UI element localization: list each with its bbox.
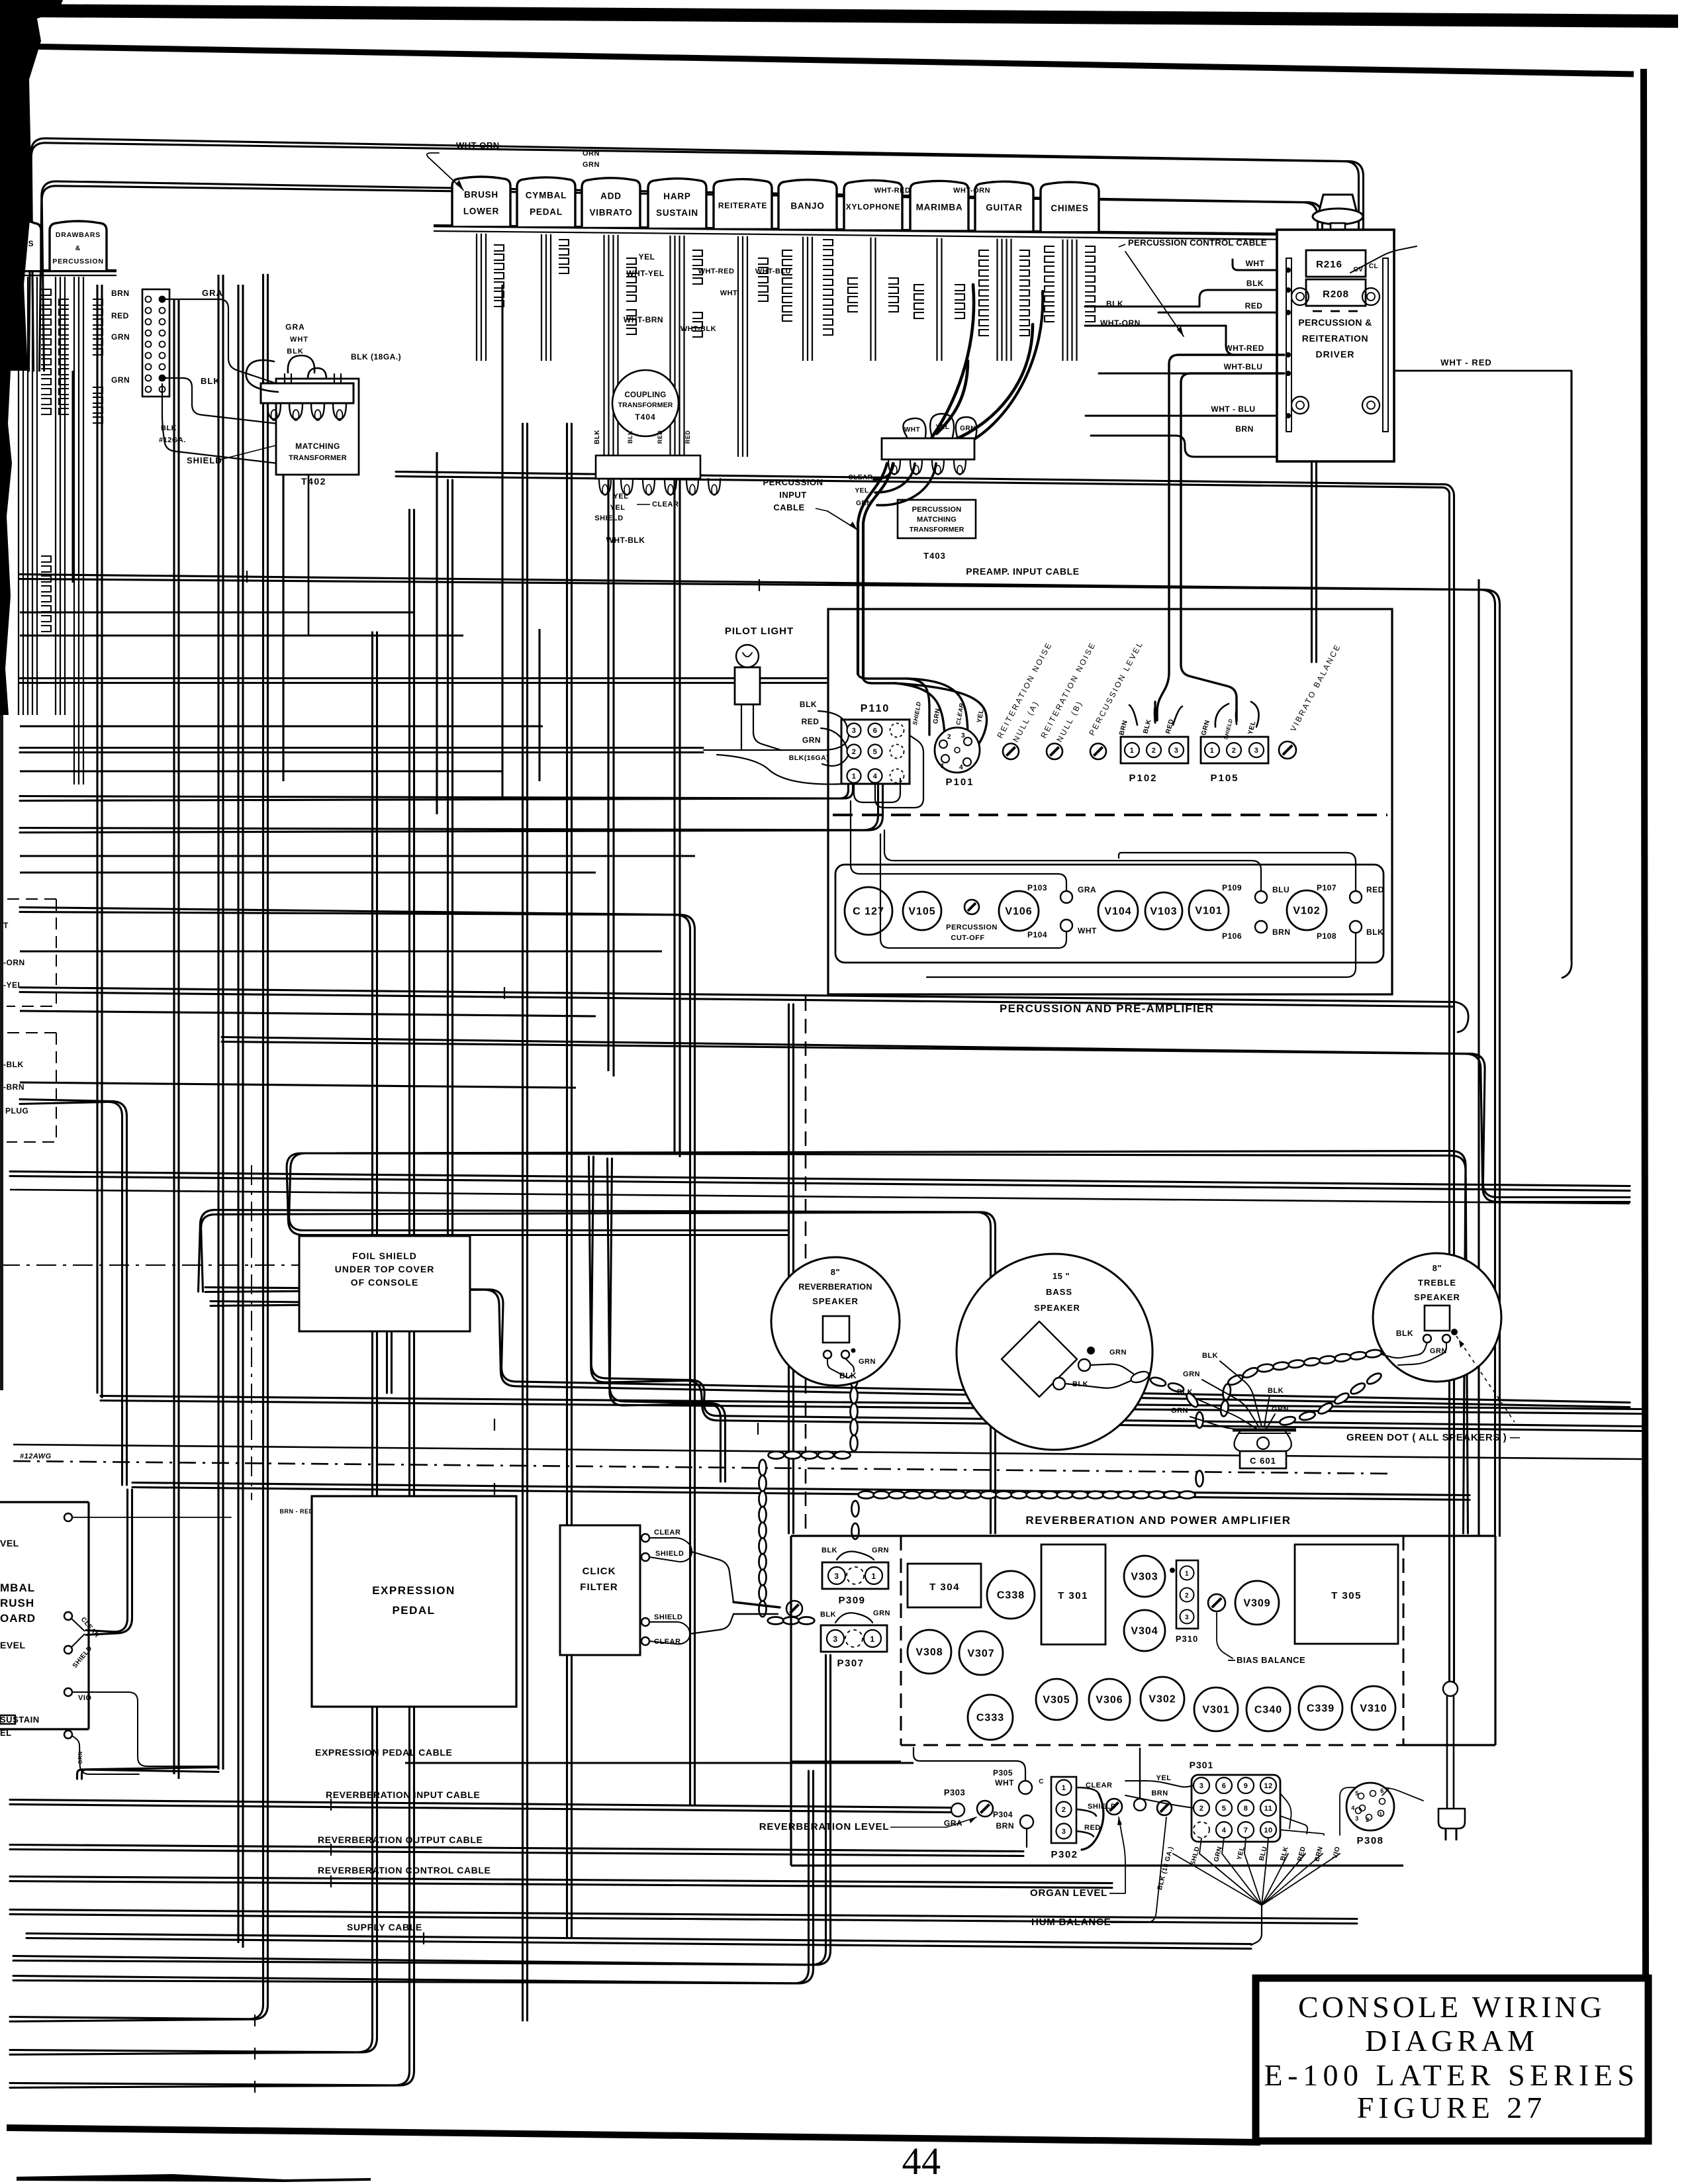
svg-text:SHIELD: SHIELD	[655, 1550, 684, 1558]
svg-text:5: 5	[1222, 1805, 1227, 1813]
svg-text:FIGURE 27: FIGURE 27	[1357, 2091, 1547, 2124]
svg-text:P101: P101	[945, 777, 974, 788]
svg-text:15 ": 15 "	[1053, 1271, 1070, 1281]
svg-text:SUSTAIN: SUSTAIN	[656, 208, 698, 218]
svg-text:GRN: GRN	[872, 1546, 889, 1554]
svg-text:OARD: OARD	[0, 1612, 36, 1625]
svg-text:PLUG: PLUG	[5, 1106, 28, 1116]
svg-text:PERCUSSION: PERCUSSION	[763, 477, 823, 487]
svg-text:MBAL: MBAL	[0, 1582, 35, 1594]
svg-text:WHT-BLK: WHT-BLK	[606, 536, 645, 545]
svg-text:9: 9	[1244, 1782, 1248, 1790]
svg-text:3: 3	[1355, 1815, 1359, 1822]
svg-text:T402: T402	[301, 476, 326, 487]
svg-text:SUSTAIN: SUSTAIN	[0, 1715, 40, 1725]
svg-text:BIAS BALANCE: BIAS BALANCE	[1237, 1655, 1305, 1665]
svg-text:WHT-BLK: WHT-BLK	[680, 325, 716, 333]
svg-text:RED: RED	[1084, 1824, 1101, 1832]
svg-text:T 301: T 301	[1058, 1590, 1088, 1601]
svg-text:GRN: GRN	[111, 332, 130, 342]
svg-text:RED: RED	[1366, 885, 1384, 894]
svg-text:CLEAR: CLEAR	[849, 474, 873, 481]
svg-text:PREAMP. INPUT CABLE: PREAMP. INPUT CABLE	[966, 566, 1079, 577]
svg-text:V103: V103	[1150, 906, 1177, 918]
svg-text:P302: P302	[1051, 1849, 1078, 1860]
svg-text:GRA: GRA	[202, 288, 223, 298]
svg-text:DIAGRAM: DIAGRAM	[1365, 2024, 1538, 2058]
svg-text:6: 6	[873, 727, 878, 735]
svg-text:12: 12	[1264, 1782, 1272, 1790]
svg-text:HARP: HARP	[663, 191, 690, 201]
svg-text:BLU: BLU	[1272, 885, 1289, 894]
svg-text:2: 2	[1062, 1806, 1066, 1814]
svg-text:VIO: VIO	[78, 1694, 91, 1702]
svg-text:#12AWG: #12AWG	[20, 1452, 52, 1460]
svg-text:-BLK: -BLK	[3, 1060, 24, 1069]
svg-text:44: 44	[902, 2140, 941, 2183]
svg-text:10: 10	[1264, 1827, 1272, 1834]
svg-text:GRN: GRN	[859, 1358, 876, 1366]
svg-text:C 601: C 601	[1250, 1456, 1276, 1466]
svg-text:P109: P109	[1222, 883, 1242, 892]
svg-text:VIBRATO: VIBRATO	[589, 207, 632, 217]
svg-text:GRN: GRN	[111, 375, 130, 385]
svg-text:P310: P310	[1176, 1634, 1198, 1644]
svg-text:LOWER: LOWER	[463, 207, 499, 216]
svg-text:BRN: BRN	[111, 289, 130, 298]
svg-text:CLEAR: CLEAR	[654, 1529, 680, 1537]
svg-text:3: 3	[1062, 1828, 1066, 1836]
svg-text:REITERATE: REITERATE	[718, 201, 767, 211]
svg-text:GRN: GRN	[873, 1609, 890, 1617]
svg-text:-BRN: -BRN	[3, 1082, 24, 1092]
svg-text:BLK: BLK	[1177, 1388, 1193, 1396]
svg-text:WHT-RED: WHT-RED	[874, 187, 911, 195]
svg-text:5: 5	[1355, 1790, 1359, 1797]
svg-text:WHT-RED: WHT-RED	[1225, 344, 1264, 353]
svg-text:BRN - RED: BRN - RED	[280, 1508, 314, 1515]
svg-text:1: 1	[941, 763, 945, 770]
svg-text:GRN: GRN	[1272, 1405, 1289, 1413]
svg-text:BLK: BLK	[800, 700, 817, 709]
svg-text:V302: V302	[1149, 1694, 1176, 1705]
svg-text:WHT-YEL: WHT-YEL	[626, 269, 665, 278]
svg-text:GUITAR: GUITAR	[986, 203, 1023, 213]
svg-text:BRN: BRN	[996, 1821, 1015, 1830]
svg-text:P107: P107	[1317, 883, 1336, 892]
svg-text:-ORN: -ORN	[3, 958, 25, 967]
svg-text:BLK: BLK	[820, 1611, 836, 1619]
svg-text:4: 4	[959, 764, 963, 771]
svg-text:1: 1	[1210, 747, 1215, 755]
svg-text:TRANSFORMER: TRANSFORMER	[618, 401, 673, 409]
svg-text:RED: RED	[111, 311, 129, 320]
svg-text:DRIVER: DRIVER	[1316, 349, 1355, 359]
svg-text:11: 11	[1264, 1805, 1273, 1813]
svg-text:BLK: BLK	[627, 430, 633, 444]
svg-text:COUPLING: COUPLING	[624, 391, 666, 399]
svg-text:1: 1	[1379, 1811, 1383, 1818]
svg-text:V301: V301	[1202, 1705, 1229, 1716]
svg-text:WHT-ORN: WHT-ORN	[953, 187, 990, 195]
svg-text:RED: RED	[657, 430, 663, 444]
svg-text:BLK (18GA.): BLK (18GA.)	[351, 352, 401, 361]
svg-text:P102: P102	[1129, 773, 1157, 784]
svg-text:TRANSFORMER: TRANSFORMER	[910, 526, 964, 534]
svg-text:PERCUSSION: PERCUSSION	[946, 924, 998, 931]
svg-text:EVEL: EVEL	[0, 1640, 26, 1650]
svg-text:ORN: ORN	[583, 150, 600, 158]
svg-text:P308: P308	[1356, 1835, 1383, 1846]
svg-text:2: 2	[1232, 747, 1237, 755]
svg-text:BLK: BLK	[1366, 927, 1383, 937]
svg-text:WHT: WHT	[720, 289, 738, 297]
svg-text:ORN: ORN	[77, 1751, 83, 1764]
svg-text:SHIELD: SHIELD	[187, 455, 222, 465]
svg-text:BLK: BLK	[161, 424, 177, 432]
svg-text:2: 2	[1185, 1592, 1189, 1599]
svg-text:CLEAR: CLEAR	[652, 500, 679, 508]
svg-text:BRN: BRN	[1151, 1789, 1168, 1797]
svg-text:BRN: BRN	[1235, 424, 1254, 434]
svg-text:3: 3	[1185, 1614, 1189, 1621]
svg-text:1: 1	[852, 773, 857, 781]
svg-text:WHT-ORN: WHT-ORN	[456, 140, 500, 150]
svg-text:8: 8	[1244, 1805, 1248, 1813]
svg-text:BLK: BLK	[1268, 1387, 1284, 1395]
svg-text:WHT: WHT	[995, 1778, 1014, 1787]
svg-text:GRN: GRN	[583, 161, 600, 169]
svg-text:PERCUSSION AND PRE-AMPLIFIER: PERCUSSION AND PRE-AMPLIFIER	[1000, 1002, 1214, 1015]
svg-text:-YEL: -YEL	[3, 980, 23, 990]
svg-text:BRN: BRN	[1272, 927, 1291, 937]
svg-text:GRA: GRA	[1078, 885, 1096, 894]
svg-text:REITERATION: REITERATION	[1302, 333, 1368, 344]
svg-text:CL: CL	[1369, 263, 1378, 270]
svg-text:C333: C333	[976, 1713, 1004, 1724]
svg-text:MARIMBA: MARIMBA	[916, 202, 963, 212]
svg-text:GRN: GRN	[802, 736, 821, 745]
svg-text:C338: C338	[997, 1590, 1025, 1601]
svg-text:OF CONSOLE: OF CONSOLE	[351, 1277, 419, 1288]
svg-text:P108: P108	[1317, 931, 1336, 941]
svg-text:V304: V304	[1131, 1626, 1158, 1637]
svg-text:CABLE: CABLE	[773, 502, 804, 512]
svg-text:RED: RED	[802, 717, 820, 726]
svg-text:V307: V307	[967, 1648, 994, 1660]
svg-text:1: 1	[871, 1572, 876, 1581]
svg-text:V101: V101	[1195, 906, 1222, 917]
svg-text:3: 3	[833, 1635, 837, 1644]
svg-text:REVERBERATION AND POWER AMP: REVERBERATION AND POWER AMPLIFIER	[1025, 1514, 1291, 1527]
svg-text:2: 2	[852, 748, 857, 756]
svg-text:YEL: YEL	[639, 252, 655, 261]
svg-text:XYLOPHONE: XYLOPHONE	[846, 202, 901, 211]
svg-text:3: 3	[1199, 1782, 1204, 1790]
svg-text:&: &	[75, 244, 81, 252]
svg-text:WHT: WHT	[904, 426, 920, 434]
svg-text:P105: P105	[1210, 773, 1239, 784]
svg-text:WHT-BLU: WHT-BLU	[1224, 362, 1263, 371]
svg-text:7: 7	[1244, 1827, 1248, 1834]
svg-text:HUM BALANCE: HUM BALANCE	[1031, 1917, 1111, 1928]
svg-text:PEDAL: PEDAL	[392, 1604, 435, 1617]
svg-text:TRANSFORMER: TRANSFORMER	[289, 454, 347, 462]
svg-text:4: 4	[1222, 1827, 1227, 1834]
svg-text:CUT-OFF: CUT-OFF	[951, 934, 984, 942]
svg-text:R216: R216	[1316, 259, 1342, 270]
svg-text:2: 2	[1199, 1805, 1204, 1813]
svg-text:2: 2	[1152, 747, 1156, 755]
svg-text:P110: P110	[861, 703, 890, 714]
svg-text:8": 8"	[831, 1267, 840, 1277]
svg-text:ORGAN LEVEL: ORGAN LEVEL	[1030, 1887, 1107, 1899]
svg-text:3: 3	[1254, 747, 1259, 755]
svg-text:5: 5	[873, 748, 878, 756]
svg-text:6: 6	[1222, 1782, 1227, 1790]
svg-text:GRN: GRN	[1430, 1347, 1447, 1355]
svg-text:WHT: WHT	[1246, 259, 1265, 268]
svg-text:PERCUSSION &: PERCUSSION &	[1298, 317, 1372, 328]
svg-text:ADD: ADD	[600, 191, 622, 201]
svg-text:BLK: BLK	[201, 376, 220, 386]
svg-text:2: 2	[1366, 1817, 1370, 1823]
svg-text:PILOT LIGHT: PILOT LIGHT	[725, 626, 794, 637]
svg-text:CYMBAL: CYMBAL	[526, 190, 567, 200]
svg-text:REVERBERATION: REVERBERATION	[798, 1282, 872, 1292]
svg-text:EL: EL	[0, 1728, 12, 1738]
svg-text:E-100 LATER SERIES: E-100 LATER SERIES	[1264, 2058, 1640, 2092]
svg-text:BLK(16GA): BLK(16GA)	[789, 754, 829, 762]
svg-text:BLK: BLK	[594, 430, 601, 444]
svg-text:P305: P305	[993, 1768, 1013, 1778]
svg-text:PERCUSSION: PERCUSSION	[52, 258, 103, 265]
svg-text:BRUSH: BRUSH	[464, 190, 498, 200]
svg-text:3: 3	[834, 1572, 839, 1581]
svg-text:V303: V303	[1131, 1572, 1158, 1583]
svg-text:SPEAKER: SPEAKER	[812, 1296, 859, 1306]
svg-text:GRA: GRA	[285, 322, 305, 332]
svg-text:YEL: YEL	[936, 424, 950, 431]
svg-text:GRN: GRN	[960, 425, 976, 432]
svg-text:GREEN DOT ( ALL SPEAKERS ) —: GREEN DOT ( ALL SPEAKERS ) —	[1346, 1432, 1521, 1443]
svg-text:P106: P106	[1222, 931, 1242, 941]
svg-text:WHT - RED: WHT - RED	[1440, 357, 1492, 367]
svg-text:GRN: GRN	[1183, 1370, 1200, 1378]
svg-text:R208: R208	[1323, 289, 1349, 300]
svg-text:SUPPLY CABLE: SUPPLY CABLE	[347, 1922, 422, 1932]
svg-text:RUSH: RUSH	[0, 1597, 34, 1609]
svg-text:REVERBERATION LEVEL: REVERBERATION LEVEL	[759, 1821, 890, 1832]
svg-text:WHT: WHT	[290, 336, 308, 344]
svg-text:DRAWBARS: DRAWBARS	[56, 231, 101, 239]
svg-text:GRN: GRN	[1171, 1407, 1188, 1415]
svg-text:P304: P304	[993, 1810, 1013, 1819]
svg-text:BLK: BLK	[821, 1546, 837, 1554]
svg-text:MATCHING: MATCHING	[917, 516, 957, 524]
svg-text:WHT - BLU: WHT - BLU	[1211, 404, 1255, 414]
svg-text:CONSOLE WIRING: CONSOLE WIRING	[1298, 1990, 1605, 2024]
svg-text:V106: V106	[1005, 906, 1032, 918]
svg-text:SPEAKER: SPEAKER	[1414, 1292, 1460, 1302]
svg-text:YEL: YEL	[610, 504, 626, 512]
svg-text:1: 1	[1130, 747, 1135, 755]
svg-text:CHIMES: CHIMES	[1051, 203, 1088, 213]
svg-text:P309: P309	[838, 1595, 865, 1606]
svg-text:TREBLE: TREBLE	[1418, 1278, 1456, 1288]
svg-text:INPUT: INPUT	[779, 490, 807, 500]
svg-text:MATCHING: MATCHING	[295, 442, 340, 451]
svg-text:1: 1	[870, 1635, 874, 1644]
svg-text:FILTER: FILTER	[580, 1582, 618, 1593]
svg-text:BLK: BLK	[1396, 1329, 1413, 1338]
svg-text:BLK: BLK	[1246, 279, 1264, 288]
svg-text:2: 2	[947, 734, 951, 741]
svg-text:T404: T404	[635, 412, 655, 422]
svg-text:8": 8"	[1432, 1263, 1442, 1273]
svg-text:6: 6	[1380, 1787, 1384, 1794]
svg-text:UNDER TOP COVER: UNDER TOP COVER	[335, 1264, 435, 1274]
svg-text:1: 1	[1062, 1784, 1066, 1792]
svg-text:PERCUSSION: PERCUSSION	[912, 506, 962, 514]
svg-text:V105: V105	[908, 906, 935, 918]
svg-text:T 304: T 304	[929, 1582, 960, 1593]
svg-text:PEDAL: PEDAL	[530, 207, 563, 216]
svg-text:SHIELD: SHIELD	[594, 514, 623, 522]
svg-text:CLICK: CLICK	[583, 1566, 616, 1577]
svg-text:REVERBERATION OUTPUT CABLE: REVERBERATION OUTPUT CABLE	[318, 1834, 483, 1845]
svg-text:PERCUSSION CONTROL CABLE: PERCUSSION CONTROL CABLE	[1128, 238, 1267, 248]
svg-text:C: C	[1039, 1778, 1044, 1785]
svg-text:EXPRESSION: EXPRESSION	[372, 1584, 455, 1597]
svg-text:P303: P303	[944, 1787, 965, 1797]
svg-text:BLK: BLK	[839, 1371, 857, 1380]
svg-text:V306: V306	[1096, 1695, 1123, 1706]
svg-text:3: 3	[961, 732, 965, 739]
svg-text:BANJO: BANJO	[790, 201, 824, 211]
svg-text:REVERBERATION INPUT CABLE: REVERBERATION INPUT CABLE	[326, 1789, 480, 1800]
svg-text:T: T	[3, 921, 9, 930]
svg-text:3: 3	[852, 727, 857, 735]
svg-text:YEL: YEL	[614, 493, 629, 500]
svg-text:SPEAKER: SPEAKER	[1034, 1303, 1080, 1313]
svg-text:V102: V102	[1293, 906, 1320, 917]
svg-text:RED: RED	[684, 430, 691, 444]
svg-text:RED: RED	[1245, 301, 1263, 310]
svg-text:P104: P104	[1027, 930, 1047, 939]
svg-text:V310: V310	[1360, 1703, 1387, 1715]
svg-text:WHT-BLU: WHT-BLU	[755, 267, 791, 275]
svg-text:C339: C339	[1307, 1703, 1335, 1715]
svg-text:WHT-BRN: WHT-BRN	[624, 315, 663, 324]
svg-text:3: 3	[1174, 747, 1179, 755]
svg-text:T 305: T 305	[1331, 1590, 1362, 1601]
svg-text:4: 4	[873, 773, 878, 781]
svg-text:YEL: YEL	[1156, 1774, 1172, 1782]
svg-text:EXPRESSION PEDAL CABLE: EXPRESSION PEDAL CABLE	[315, 1747, 452, 1758]
svg-text:BLK: BLK	[1202, 1352, 1218, 1360]
svg-text:V104: V104	[1104, 906, 1131, 918]
svg-text:C 127: C 127	[853, 906, 884, 918]
svg-text:P103: P103	[1027, 883, 1047, 892]
svg-text:1: 1	[1185, 1570, 1189, 1578]
svg-text:WHT-RED: WHT-RED	[698, 267, 735, 275]
svg-text:VEL: VEL	[0, 1538, 19, 1548]
svg-text:FOIL SHIELD: FOIL SHIELD	[352, 1251, 417, 1261]
svg-text:C340: C340	[1254, 1705, 1282, 1716]
svg-text:WHT: WHT	[1078, 926, 1097, 935]
svg-text:P307: P307	[837, 1658, 864, 1669]
svg-text:BASS: BASS	[1046, 1287, 1072, 1297]
svg-text:V305: V305	[1043, 1695, 1070, 1706]
svg-text:V309: V309	[1243, 1598, 1270, 1609]
svg-text:#12GA.: #12GA.	[159, 436, 186, 444]
svg-text:V308: V308	[915, 1647, 943, 1658]
svg-text:P301: P301	[1190, 1760, 1214, 1770]
svg-text:4: 4	[1351, 1805, 1355, 1811]
svg-text:BLK: BLK	[287, 348, 304, 356]
svg-text:T403: T403	[923, 551, 946, 561]
svg-text:REVERBERATION CONTROL CABLE: REVERBERATION CONTROL CABLE	[318, 1865, 491, 1875]
svg-text:YEL: YEL	[855, 487, 869, 495]
svg-text:SHIELD: SHIELD	[654, 1613, 682, 1621]
svg-text:GRN: GRN	[1109, 1349, 1127, 1356]
